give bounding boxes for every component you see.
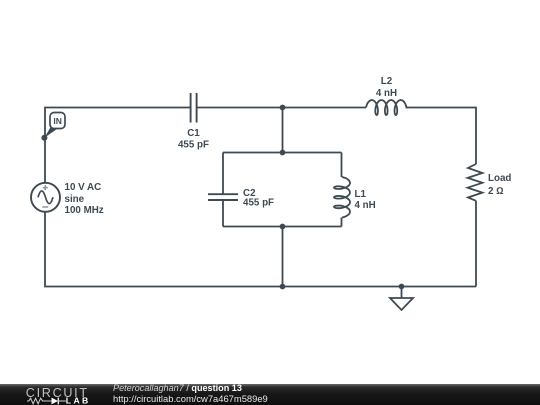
label: C1 455 pF (178, 128, 209, 150)
footer credit text (113, 384, 268, 403)
junction dot: IN tap on left rail (41, 135, 47, 141)
capacitor C2 (208, 194, 238, 200)
svg-text:L2: L2 (381, 76, 393, 87)
footer bar (0, 384, 540, 405)
wire: bottom rail (45, 212, 476, 287)
junction dot: ground tap (399, 284, 405, 290)
wire: L1 top lead (341, 153, 343, 178)
wire: center branch upper (top rail to tank top) (282, 108, 284, 153)
label: Load 2 ohm (488, 173, 511, 197)
svg-text:4 nH: 4 nH (376, 88, 397, 99)
junction dot: bottom rail / center branch (280, 284, 286, 290)
wire: top rail left segment (source to C1) (45, 108, 190, 184)
wire: top rail L2 to top-right corner, down to Load (406, 108, 476, 165)
svg-text:Load: Load (488, 173, 511, 184)
label: 10 V AC / sine / 100 MHz (65, 182, 104, 216)
inductor L1 (334, 177, 350, 218)
wire: C2 top lead (222, 153, 224, 194)
node flag IN (44, 113, 65, 138)
wire: L1 bottom lead (341, 218, 343, 227)
inductor L2 (366, 100, 407, 115)
label: C2 455 pF (243, 188, 274, 209)
wire: tank bottom rail (223, 226, 342, 228)
svg-text:LAB: LAB (66, 395, 91, 405)
AC voltage source V1 (31, 183, 60, 212)
svg-text:C1: C1 (187, 128, 200, 139)
wire: C2 bottom lead (222, 201, 224, 227)
svg-text:10 V AC: 10 V AC (65, 182, 102, 193)
label: L1 4 nH (355, 189, 376, 211)
ground (390, 287, 413, 311)
label: L2 4 nH (376, 76, 397, 99)
junction dot: top rail / center branch (280, 105, 286, 111)
svg-text:100 MHz: 100 MHz (65, 205, 104, 216)
wire: right rail below Load to bottom-right corner (475, 201, 477, 287)
CircuitLab logo (0, 384, 100, 405)
svg-text:2 Ω: 2 Ω (488, 186, 504, 197)
wire: tank top rail (223, 152, 342, 154)
svg-text:4 nH: 4 nH (355, 200, 376, 211)
capacitor C1 (191, 93, 197, 123)
svg-text:455 pF: 455 pF (243, 198, 274, 209)
wire: center branch lower (tank bottom to bottom rail) (282, 227, 284, 287)
svg-text:sine: sine (65, 194, 85, 205)
junction dot: tank top (280, 150, 286, 156)
junction dot: tank bottom (280, 224, 286, 230)
svg-text:455 pF: 455 pF (178, 139, 209, 150)
resistor Load (468, 164, 483, 201)
svg-text:L1: L1 (355, 189, 367, 200)
wire: top rail C1 to L2 (197, 107, 366, 109)
svg-text:IN: IN (53, 116, 62, 126)
